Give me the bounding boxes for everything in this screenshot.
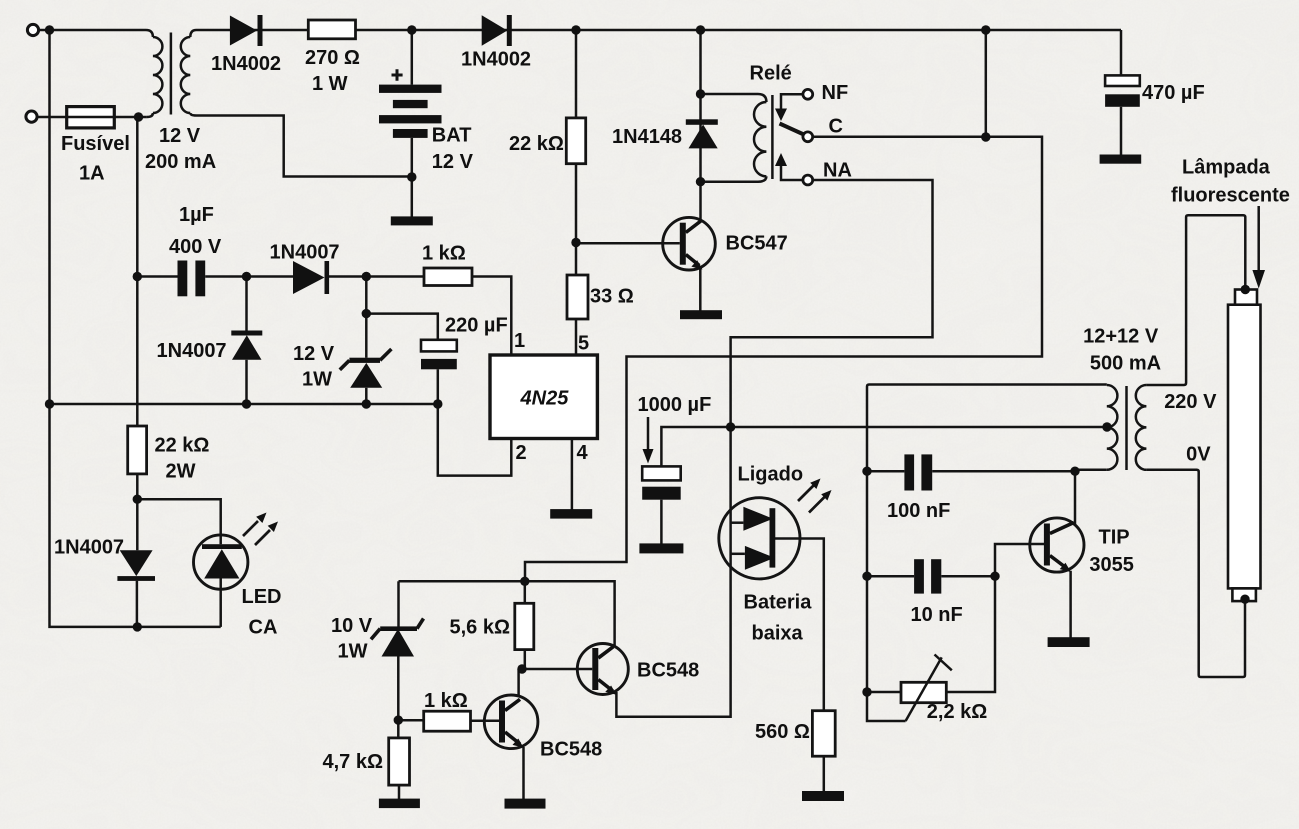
svg-text:1 kΩ: 1 kΩ bbox=[422, 243, 466, 265]
svg-text:2: 2 bbox=[516, 442, 527, 464]
svg-text:12+12 V: 12+12 V bbox=[1083, 326, 1159, 348]
svg-text:BC547: BC547 bbox=[726, 233, 788, 255]
svg-text:TIP: TIP bbox=[1099, 527, 1130, 549]
svg-text:12 V: 12 V bbox=[159, 125, 201, 147]
svg-text:33 Ω: 33 Ω bbox=[590, 286, 634, 308]
svg-text:NF: NF bbox=[822, 82, 849, 104]
svg-text:22 kΩ: 22 kΩ bbox=[155, 435, 210, 457]
svg-text:baixa: baixa bbox=[752, 623, 804, 645]
svg-text:200 mA: 200 mA bbox=[145, 151, 216, 173]
svg-text:Relé: Relé bbox=[750, 63, 792, 85]
svg-text:470 µF: 470 µF bbox=[1142, 82, 1205, 104]
svg-text:5,6 kΩ: 5,6 kΩ bbox=[450, 617, 511, 639]
svg-text:400 V: 400 V bbox=[169, 236, 222, 258]
svg-text:500 mA: 500 mA bbox=[1090, 353, 1161, 375]
svg-text:10 V: 10 V bbox=[331, 615, 373, 637]
svg-text:2W: 2W bbox=[166, 461, 196, 483]
svg-text:0V: 0V bbox=[1186, 444, 1211, 466]
svg-text:C: C bbox=[829, 116, 843, 138]
svg-text:100 nF: 100 nF bbox=[887, 500, 950, 522]
svg-text:10 nF: 10 nF bbox=[911, 604, 963, 626]
svg-text:Lâmpada: Lâmpada bbox=[1182, 157, 1271, 179]
svg-text:BAT: BAT bbox=[432, 125, 472, 147]
svg-text:1N4007: 1N4007 bbox=[157, 340, 227, 362]
svg-text:560 Ω: 560 Ω bbox=[755, 721, 810, 743]
svg-text:LED: LED bbox=[242, 586, 282, 608]
svg-text:3055: 3055 bbox=[1089, 554, 1134, 576]
svg-text:1µF: 1µF bbox=[179, 204, 214, 226]
svg-text:Ligado: Ligado bbox=[738, 464, 804, 486]
svg-text:1: 1 bbox=[514, 330, 525, 352]
svg-text:1N4007: 1N4007 bbox=[270, 242, 340, 264]
svg-text:1N4002: 1N4002 bbox=[461, 49, 531, 71]
svg-text:1N4007: 1N4007 bbox=[54, 537, 124, 559]
svg-text:1W: 1W bbox=[302, 369, 332, 391]
svg-text:12 V: 12 V bbox=[293, 343, 335, 365]
svg-text:1A: 1A bbox=[79, 163, 105, 185]
svg-text:270 Ω: 270 Ω bbox=[305, 47, 360, 69]
svg-text:1000 µF: 1000 µF bbox=[638, 394, 712, 416]
svg-text:Fusível: Fusível bbox=[61, 133, 130, 155]
svg-text:4,7 kΩ: 4,7 kΩ bbox=[323, 751, 384, 773]
svg-text:2,2 kΩ: 2,2 kΩ bbox=[927, 701, 988, 723]
svg-text:BC548: BC548 bbox=[637, 660, 699, 682]
svg-text:1 W: 1 W bbox=[312, 73, 348, 95]
svg-text:4N25: 4N25 bbox=[520, 388, 570, 410]
svg-text:1W: 1W bbox=[338, 641, 368, 663]
svg-text:1 kΩ: 1 kΩ bbox=[424, 690, 468, 712]
svg-text:fluorescente: fluorescente bbox=[1171, 185, 1290, 207]
svg-text:5: 5 bbox=[578, 333, 589, 355]
svg-text:1N4148: 1N4148 bbox=[612, 126, 682, 148]
svg-text:22 kΩ: 22 kΩ bbox=[509, 133, 564, 155]
svg-text:BC548: BC548 bbox=[540, 739, 602, 761]
svg-text:4: 4 bbox=[577, 442, 589, 464]
svg-text:220 µF: 220 µF bbox=[445, 315, 508, 337]
svg-text:CA: CA bbox=[249, 617, 278, 639]
svg-text:220 V: 220 V bbox=[1164, 391, 1217, 413]
svg-text:12 V: 12 V bbox=[432, 151, 474, 173]
svg-text:Bateria: Bateria bbox=[744, 592, 813, 614]
svg-text:NA: NA bbox=[823, 160, 852, 182]
svg-text:1N4002: 1N4002 bbox=[211, 53, 281, 75]
